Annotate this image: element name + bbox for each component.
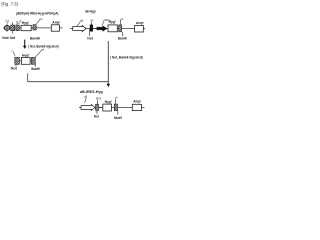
svg-text:pA: pA (120, 18, 123, 21)
svg-text:Not: Not (11, 67, 18, 71)
box Amp (plasmid 1) (51, 25, 59, 31)
svg-text:αB-Hygr: αB-Hygr (85, 8, 96, 13)
svg-text:BamHI: BamHI (114, 116, 122, 120)
block arrow: aB promoter (result, white) (81, 105, 95, 111)
svg-text:pA: pA (115, 97, 118, 100)
node: T3 promoter ellipse (4, 26, 9, 31)
hatched box: IRES (fragment) (15, 57, 20, 64)
pointer wire to pA label (36, 20, 40, 24)
wire: ligation connector vertical (left) (27, 73, 29, 81)
svg-text:Ampr: Ampr (133, 100, 141, 104)
wire: ligation connector horizontal (28, 81, 109, 83)
pointer wire to NotI end label (13, 51, 16, 56)
pin tick above hatched box (result) (115, 99, 117, 104)
svg-text:IRES: IRES (96, 98, 102, 101)
pointer wire to IRES label (18, 20, 21, 24)
svg-text:( Not, BamHI digested): ( Not, BamHI digested) (110, 55, 143, 59)
svg-text:XhoI/ NotI: XhoI/ NotI (2, 36, 15, 40)
pin tick: Not pointer below (result) (96, 110, 98, 114)
wire (30, 60, 31, 62)
svg-text:αB-IRES-Hyg: αB-IRES-Hyg (80, 90, 103, 94)
black box: exon (90, 25, 93, 32)
svg-text:BamHI: BamHI (30, 36, 40, 40)
black box: IRES junction (result) (96, 104, 99, 110)
hatched box: pA (mPGK polyA) (33, 25, 36, 30)
arrow: digestion step (left, down) (24, 40, 26, 47)
pin tick above hatched box (120, 20, 122, 25)
box Hygr (plasmid 1) (21, 25, 31, 30)
box Hygr (plasmid 2) (108, 25, 117, 32)
wire: result construct backbone (79, 107, 145, 109)
svg-text:pA: pA (41, 49, 44, 52)
svg-text:Not: Not (94, 114, 100, 118)
hatched box: pA (result) (114, 104, 117, 111)
arrow: digestion/ligation (right, long down) (107, 41, 109, 85)
hatched box: XhoI site (11, 25, 15, 31)
svg-text:αB: αB (80, 19, 83, 22)
svg-text:pBSK(wt)-IRES-Hyg-mPGKpA): pBSK(wt)-IRES-Hyg-mPGKpA) (16, 10, 59, 15)
svg-text:Hygr: Hygr (109, 20, 116, 24)
pin tick through ellipse (6, 24, 8, 32)
wire (31, 27, 33, 29)
svg-text:Not: Not (87, 36, 94, 40)
block arrow: aB promoter (white) (73, 25, 87, 31)
pin tick above black box (result) (96, 100, 98, 104)
block arrow: gene (black) (97, 26, 107, 32)
wire: right construct backbone (70, 28, 145, 30)
pin tick below pA box (34, 64, 36, 67)
pin tick below IRES box (15, 64, 17, 66)
pin tick above black box (91, 21, 93, 24)
label smudge above ellipse (7, 20, 8, 23)
pin tick above NotI box (16, 21, 18, 25)
hatched box: NotI site (16, 25, 19, 31)
wire: left construct backbone (3, 27, 63, 29)
pointer wire to gene label (102, 21, 104, 26)
pin tick above XhoI box (12, 23, 14, 26)
box Hygr (result) (103, 104, 112, 111)
svg-text:Hygr: Hygr (105, 100, 112, 104)
pointer wire to pA label (fragment) (35, 50, 41, 57)
svg-text:Ampr: Ampr (52, 21, 60, 25)
wire (93, 28, 97, 30)
svg-text:[Fig. 7-3]: [Fig. 7-3] (2, 1, 18, 6)
pin tick: BamHI pointer below wire (122, 32, 124, 36)
svg-text:Ampr: Ampr (136, 21, 144, 25)
box Hygr (fragment) (21, 57, 30, 64)
svg-text:BamHI: BamHI (118, 36, 127, 40)
hatched box: pA (fragment) (31, 57, 35, 64)
pin tick: BamHI pointer below (result) (117, 111, 119, 115)
pointer wire to promoter label (77, 21, 81, 26)
hatched box: pA (plasmid 2) (119, 25, 122, 32)
svg-text:Hygr: Hygr (22, 53, 29, 57)
svg-text:pA: pA (39, 18, 42, 21)
wire (19, 60, 21, 62)
pointer wire to promoter label (result) (85, 98, 87, 103)
box Amp (plasmid 2) (135, 25, 144, 32)
svg-text:Hygr: Hygr (22, 21, 29, 25)
pin tick: NotI pointer below wire (89, 29, 91, 36)
svg-text:BamHI: BamHI (31, 67, 40, 71)
pin tick below XhoI box (12, 31, 14, 34)
wire (99, 107, 103, 109)
box Amp (result) (132, 104, 141, 110)
svg-text:αB: αB (84, 96, 87, 99)
